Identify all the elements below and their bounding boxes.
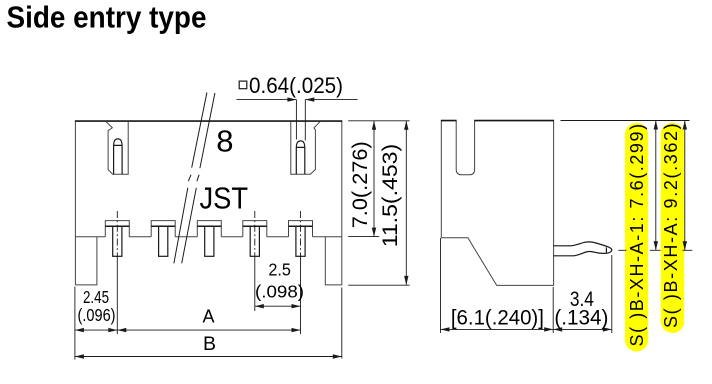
highlight pill 2 xyxy=(661,123,684,333)
lintel line 2 xyxy=(151,225,175,227)
pedestal notch 2 xyxy=(151,221,175,237)
front right extension lines xyxy=(348,121,409,285)
pedestal notch 1 xyxy=(105,221,129,237)
svg-text:Side entry type: Side entry type xyxy=(7,0,207,35)
lintel line 5 xyxy=(289,225,313,227)
right end block xyxy=(325,237,342,285)
lintel line 4 xyxy=(243,225,267,227)
side view bottom extension lines xyxy=(441,238,612,333)
dim line 2.5 xyxy=(255,305,301,307)
svg-text:B: B xyxy=(203,333,216,355)
bottom left extension line xyxy=(74,287,76,360)
dim line 7.0 xyxy=(373,121,375,237)
pin tail 3 xyxy=(205,226,214,256)
arrows 2.5 xyxy=(255,304,264,308)
arrows 2.45 xyxy=(75,328,84,332)
arrows 7.0 xyxy=(372,121,376,130)
arrows 11.5 xyxy=(404,121,408,130)
pedestal notch 5 xyxy=(289,221,313,237)
dim line B xyxy=(75,356,342,358)
pin4 centerline xyxy=(254,211,256,257)
svg-text:(.096): (.096) xyxy=(78,305,116,325)
pin1 centerline xyxy=(116,211,118,257)
pin tail 5 xyxy=(296,226,305,256)
B right extension xyxy=(341,288,343,359)
top-left slot xyxy=(106,121,129,174)
lintel line 1 xyxy=(105,225,129,227)
dim line 2.45 + A xyxy=(75,329,301,331)
highlight pill 1 xyxy=(625,123,648,352)
side pin dash-dot xyxy=(618,249,626,251)
housing bottom edge segments xyxy=(75,236,341,238)
lintel line 3 xyxy=(197,225,221,227)
side view housing outline xyxy=(441,120,553,285)
svg-text:8: 8 xyxy=(216,124,233,159)
svg-text:S( )B-XH-A-1: 7.6(.299): S( )B-XH-A-1: 7.6(.299) xyxy=(627,122,647,346)
svg-text:7.0(.276): 7.0(.276) xyxy=(349,141,372,228)
pedestal notch 4 xyxy=(243,221,267,237)
arrows variant line 1 xyxy=(654,121,658,130)
svg-text:[6.1(.240)]: [6.1(.240)] xyxy=(451,306,544,330)
side view pin contact xyxy=(554,242,612,256)
arrows 0.64 xyxy=(287,97,296,101)
arrows 3.4 xyxy=(553,327,562,331)
svg-text:2.5: 2.5 xyxy=(268,260,291,280)
break line 1 xyxy=(174,93,207,264)
pedestal notch 3 xyxy=(197,221,221,237)
arrows A xyxy=(117,328,126,332)
pin tail 4 xyxy=(250,226,259,256)
left end block xyxy=(75,237,97,285)
vertical dim line variant 1 xyxy=(655,121,657,251)
side dim line 6.1 and 3.4 xyxy=(441,328,612,330)
pin tail 2 xyxy=(159,226,168,256)
svg-text:11.5(.453): 11.5(.453) xyxy=(379,144,402,248)
svg-text:(.098): (.098) xyxy=(255,282,304,302)
arrows variant line 2 xyxy=(683,121,687,130)
dim line 11.5 xyxy=(405,121,407,285)
pin contact front view top-right xyxy=(296,141,305,174)
svg-text:(.134): (.134) xyxy=(554,306,608,330)
break line 2 xyxy=(182,93,215,263)
pin contact front view top-left xyxy=(114,139,123,174)
dim 0.64 dimension line xyxy=(237,99,358,101)
svg-text:A: A xyxy=(203,307,215,327)
svg-text:2.45: 2.45 xyxy=(83,287,109,307)
svg-text:0.64(.025): 0.64(.025) xyxy=(249,73,343,98)
housing front view outline xyxy=(75,121,341,285)
bottom extension line right xyxy=(650,249,693,251)
top extension line right xyxy=(561,120,690,122)
dim 0.64 extension lines xyxy=(296,100,305,141)
pin tail 1 xyxy=(113,226,122,256)
top-right slot xyxy=(291,121,321,174)
arrows 6.1 xyxy=(441,327,450,331)
svg-text:JST: JST xyxy=(200,181,249,216)
square symbol xyxy=(239,81,247,89)
vertical dim line variant 2 xyxy=(684,121,686,251)
svg-text:S( )B-XH-A: 9.2(.362): S( )B-XH-A: 9.2(.362) xyxy=(661,122,681,328)
pin5 centerline xyxy=(300,211,302,257)
arrows B xyxy=(75,354,84,358)
